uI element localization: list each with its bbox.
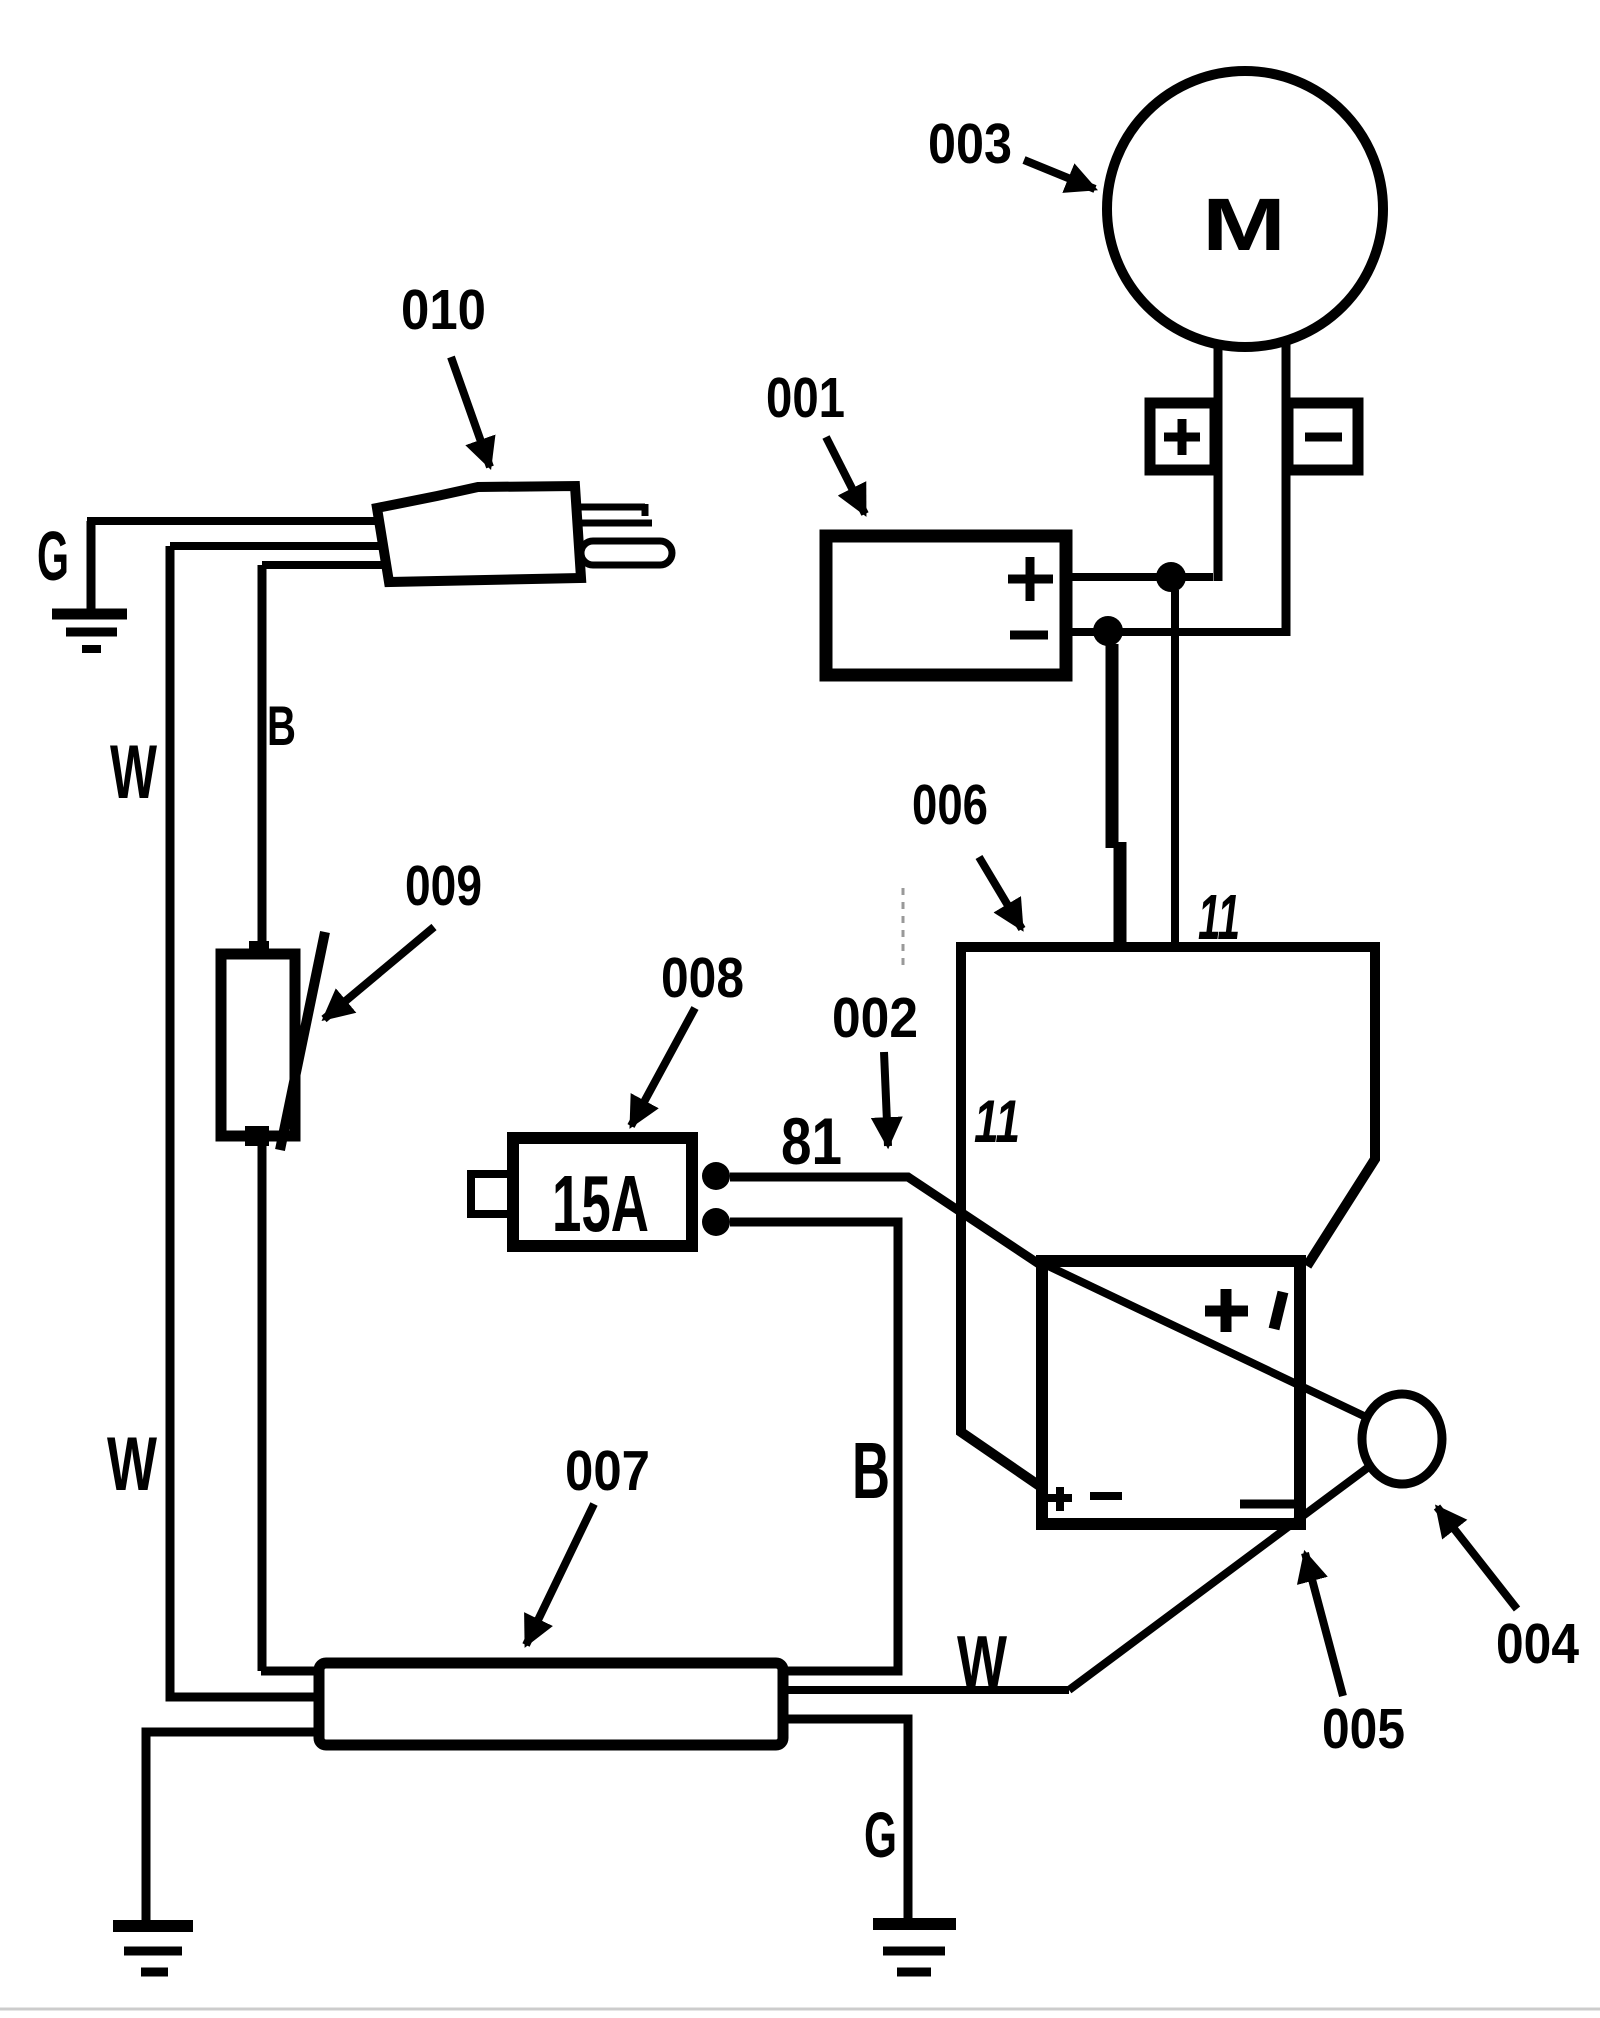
svg-text:M: M bbox=[1202, 183, 1286, 266]
svg-text:W: W bbox=[957, 1622, 1007, 1702]
svg-text:009: 009 bbox=[405, 854, 482, 918]
svg-text:G: G bbox=[37, 517, 69, 595]
svg-text:005: 005 bbox=[1322, 1697, 1405, 1761]
svg-text:W: W bbox=[107, 1422, 157, 1507]
svg-text:11: 11 bbox=[1198, 881, 1240, 953]
svg-text:15A: 15A bbox=[552, 1159, 649, 1248]
svg-text:006: 006 bbox=[912, 773, 988, 837]
svg-text:B: B bbox=[852, 1426, 890, 1515]
svg-text:11: 11 bbox=[974, 1088, 1020, 1155]
svg-text:010: 010 bbox=[401, 278, 486, 342]
svg-text:002: 002 bbox=[832, 986, 918, 1050]
svg-text:001: 001 bbox=[766, 366, 845, 430]
svg-text:B: B bbox=[267, 694, 296, 757]
svg-text:W: W bbox=[110, 730, 157, 815]
svg-text:81: 81 bbox=[781, 1104, 842, 1178]
svg-text:007: 007 bbox=[565, 1439, 650, 1503]
svg-text:003: 003 bbox=[928, 112, 1012, 176]
svg-text:008: 008 bbox=[661, 946, 744, 1010]
svg-text:004: 004 bbox=[1496, 1612, 1579, 1676]
svg-text:G: G bbox=[864, 1799, 897, 1871]
